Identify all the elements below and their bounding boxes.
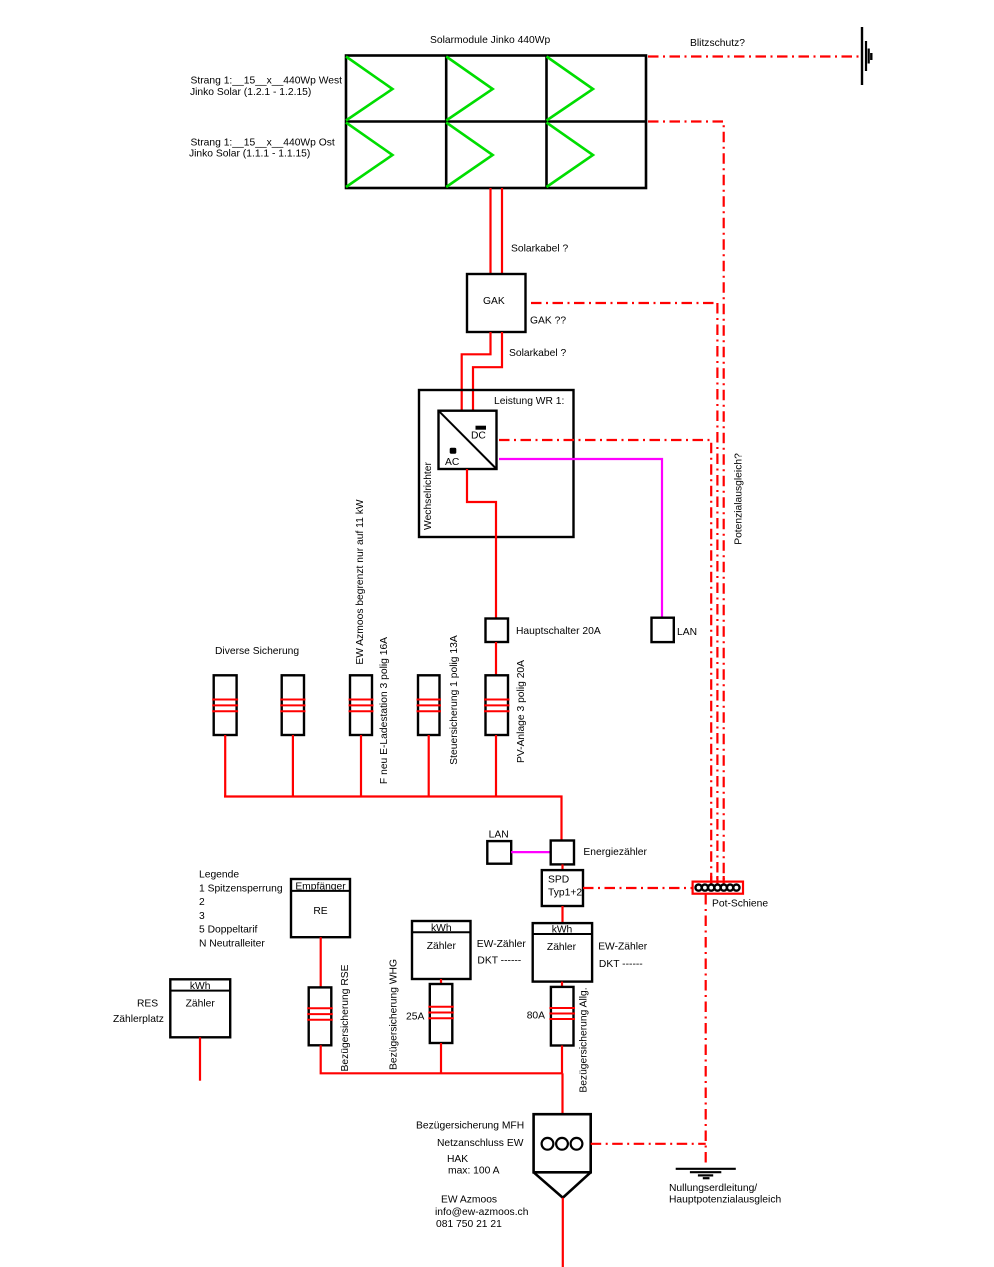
- svg-text:RES: RES: [137, 999, 158, 1010]
- meter kWh WHG (left): [412, 921, 471, 979]
- wire dash-dot inverter DC earth to riser: [499, 440, 711, 891]
- receiver box Empfaenger RE: [291, 879, 350, 937]
- wire RES meter stub: [199, 1037, 201, 1080]
- wire GAK to inverter (left): [462, 332, 491, 411]
- inverter outer box: [419, 390, 574, 537]
- svg-text:EW Azmoos begrenzt nur auf 11: EW Azmoos begrenzt nur auf 11 kW: [355, 499, 366, 664]
- svg-text:Zähler: Zähler: [427, 941, 457, 952]
- svg-text:Diverse Sicherung: Diverse Sicherung: [215, 646, 299, 657]
- wire dash-dot HAK to earthing: [591, 1143, 706, 1145]
- fuse Bezuegersicherung RSE: [307, 987, 333, 1045]
- svg-text:RE: RE: [313, 906, 327, 917]
- label Legende block: [199, 870, 283, 950]
- wire HAK down to grid: [562, 1198, 564, 1267]
- wire RE to RSE fuse: [320, 937, 322, 987]
- solar module chevrons (diode arrows): [346, 57, 593, 188]
- svg-text:DKT ------: DKT ------: [599, 959, 643, 970]
- svg-text:Zählerplatz: Zählerplatz: [113, 1014, 164, 1025]
- svg-text:PV-Anlage 3 polig 20A: PV-Anlage 3 polig 20A: [516, 660, 527, 763]
- svg-text:Typ1+2: Typ1+2: [548, 888, 582, 899]
- svg-text:Solarmodule Jinko 440Wp: Solarmodule Jinko 440Wp: [430, 35, 550, 46]
- svg-text:Jinko Solar (1.2.1 - 1.2.15): Jinko Solar (1.2.1 - 1.2.15): [190, 87, 311, 98]
- svg-text:Leistung WR 1:: Leistung WR 1:: [494, 396, 564, 407]
- fuse F3 E-Ladestation 16A: [349, 675, 374, 735]
- wire magenta inverter to LAN: [499, 459, 662, 618]
- svg-text:DC: DC: [471, 431, 486, 442]
- svg-text:info@ew-azmoos.ch: info@ew-azmoos.ch: [435, 1207, 529, 1218]
- fuse F5 PV-Anlage 20A: [484, 675, 510, 735]
- svg-text:HAK: HAK: [447, 1154, 468, 1165]
- svg-text:Zähler: Zähler: [547, 942, 577, 953]
- svg-text:Strang 1:__15__x__440Wp Ost: Strang 1:__15__x__440Wp Ost: [191, 137, 335, 148]
- svg-text:SPD: SPD: [548, 875, 569, 886]
- bus upper horizontal: [224, 797, 562, 841]
- svg-text:LAN: LAN: [677, 627, 697, 638]
- svg-text:Legende: Legende: [199, 870, 239, 881]
- svg-text:Bezügersicherung MFH: Bezügersicherung MFH: [416, 1121, 524, 1132]
- wire magenta LAN to energy meter: [511, 851, 551, 853]
- svg-text:kWh: kWh: [552, 924, 573, 935]
- wire main switch to fuse F5: [495, 642, 497, 676]
- svg-text:1 Spitzensperrung: 1 Spitzensperrung: [199, 883, 283, 894]
- wire energy meter to SPD: [561, 864, 563, 870]
- riser dash-dot from GAK: [716, 303, 718, 891]
- svg-text:Bezügersicherung WHG: Bezügersicherung WHG: [389, 959, 400, 1070]
- fuse Bezuegersicherung Allg 80A: [549, 987, 575, 1046]
- svg-text:Steuersicherung 1 polig 13A: Steuersicherung 1 polig 13A: [449, 635, 460, 765]
- svg-text:Solarkabel ?: Solarkabel ?: [511, 243, 569, 254]
- wire WHG meter to 25A fuse: [440, 979, 442, 984]
- svg-text:80A: 80A: [527, 1011, 545, 1022]
- Pot-Schiene terminals: [696, 885, 740, 891]
- svg-text:Nullungserdleitung/: Nullungserdleitung/: [669, 1183, 757, 1194]
- svg-text:25A: 25A: [406, 1012, 424, 1023]
- svg-text:N Neutralleiter: N Neutralleiter: [199, 939, 265, 950]
- svg-text:EW-Zähler: EW-Zähler: [477, 939, 527, 950]
- svg-text:kWh: kWh: [190, 981, 211, 992]
- junction box GAK: [467, 274, 526, 332]
- svg-text:Jinko Solar (1.1.1 - 1.1.15): Jinko Solar (1.1.1 - 1.1.15): [189, 149, 310, 160]
- svg-text:Hauptpotenzialausgleich: Hauptpotenzialausgleich: [669, 1194, 781, 1205]
- svg-text:Energiezähler: Energiezähler: [583, 847, 647, 858]
- ground Nullungserdleitung: [676, 1169, 736, 1178]
- wire GAK to inverter (right): [473, 332, 502, 411]
- wires fuse row to bus: [225, 735, 496, 797]
- svg-text:LAN: LAN: [489, 829, 509, 840]
- svg-text:max: 100 A: max: 100 A: [448, 1165, 500, 1176]
- svg-text:EW-Zähler: EW-Zähler: [598, 941, 648, 952]
- svg-text:Empfänger: Empfänger: [295, 881, 346, 892]
- main switch box: [486, 619, 509, 643]
- bus lower horizontal: [321, 1045, 563, 1073]
- svg-text:Bezügersicherung Allg.: Bezügersicherung Allg.: [579, 987, 590, 1092]
- svg-text:2: 2: [199, 897, 205, 908]
- svg-text:Zähler: Zähler: [186, 999, 216, 1010]
- fuse F2 (diverse): [280, 675, 305, 735]
- LAN box (inverter): [652, 618, 674, 642]
- wire 80A fuse to bus: [561, 1046, 563, 1074]
- svg-text:Pot-Schiene: Pot-Schiene: [712, 899, 768, 910]
- svg-text:F neu E-Ladestation 3 polig 16: F neu E-Ladestation 3 polig 16A: [379, 637, 390, 784]
- fuse Bezuegersicherung WHG 25A: [428, 984, 454, 1043]
- wire AC output down: [467, 469, 496, 619]
- svg-text:kWh: kWh: [431, 923, 452, 934]
- house connection box HAK: [534, 1114, 591, 1198]
- meter kWh Allg (right): [533, 923, 592, 982]
- svg-text:Solarkabel ?: Solarkabel ?: [509, 348, 567, 359]
- SPD box: [542, 870, 583, 906]
- wire dash-dot GAK to riser: [531, 302, 717, 304]
- wire dash-dot array mid to potential equalisation riser: [648, 122, 724, 892]
- svg-text:Hauptschalter 20A: Hauptschalter 20A: [516, 626, 601, 637]
- wire bus to HAK: [561, 1073, 563, 1114]
- wire solar string down to GAK (right): [501, 188, 503, 274]
- wire solar string down to GAK (left): [489, 188, 491, 274]
- wire dash-dot Pot-Schiene down to earthing: [705, 894, 707, 1164]
- svg-text:5 Doppeltarif: 5 Doppeltarif: [199, 925, 258, 936]
- svg-text:Netzanschluss EW: Netzanschluss EW: [437, 1138, 524, 1149]
- inverter diagonal: [439, 411, 497, 469]
- svg-text:GAK: GAK: [483, 296, 505, 307]
- svg-text:3: 3: [199, 911, 205, 922]
- energy meter box: [551, 841, 574, 865]
- svg-text:EW Azmoos: EW Azmoos: [441, 1195, 497, 1206]
- Pot-Schiene bar: [693, 882, 743, 894]
- svg-text:081 750 21 21: 081 750 21 21: [436, 1219, 502, 1230]
- LAN box (meter): [487, 841, 511, 864]
- earth electrode symbol (lightning protection): [862, 27, 871, 85]
- svg-text:Blitzschutz?: Blitzschutz?: [690, 38, 745, 49]
- svg-text:Strang 1:__15__x__440Wp West: Strang 1:__15__x__440Wp West: [191, 76, 343, 87]
- AC symbol blob: [450, 448, 457, 454]
- wire SPD to EW meter: [561, 906, 563, 923]
- svg-text:Bezügersicherung RSE: Bezügersicherung RSE: [340, 964, 351, 1071]
- svg-text:Potenzialausgleich?: Potenzialausgleich?: [734, 453, 745, 545]
- svg-text:AC: AC: [445, 457, 460, 468]
- wire dash-dot SPD to Pot-Schiene: [583, 887, 693, 889]
- svg-text:GAK ??: GAK ??: [530, 316, 566, 327]
- wire dash-dot array to lightning earth: [648, 55, 859, 57]
- DC symbol bar: [476, 426, 487, 430]
- wire Allg meter to 80A fuse: [561, 982, 563, 987]
- svg-text:Wechselrichter: Wechselrichter: [423, 461, 434, 529]
- inverter DC/AC converter square U1: [439, 411, 497, 469]
- wire 25A fuse to bus: [440, 1043, 442, 1073]
- meter kWh RES: [170, 979, 230, 1037]
- svg-text:DKT ------: DKT ------: [477, 956, 521, 967]
- solar module array PV1 frame: [346, 56, 646, 189]
- riser stubs into Pot-Schiene: [711, 876, 724, 890]
- fuse F4 Steuersicherung 13A: [417, 675, 442, 735]
- fuse F1 (diverse): [212, 675, 238, 735]
